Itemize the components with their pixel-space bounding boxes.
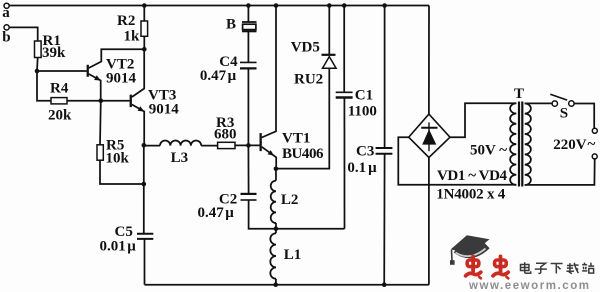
wire mid node to C1 corner (276, 228, 345, 230)
label 220V~ (553, 137, 595, 153)
node R1-R4-base junction (35, 69, 40, 74)
resistor R3 (214, 115, 237, 149)
wire node to VT2 base (37, 70, 87, 72)
svg-text:b: b (2, 30, 10, 46)
svg-text:VD1 ~ VD4: VD1 ~ VD4 (437, 168, 508, 184)
wire R3 to VT1 base (235, 144, 260, 146)
switch S (550, 94, 574, 121)
transistor VT2 (87, 49, 145, 100)
inductor L2 (271, 169, 299, 229)
wire bus corner to bridge (428, 6, 430, 115)
wire C5 to ground bus (144, 239, 146, 285)
label 1N4002 x 4 (436, 187, 506, 203)
wire bridge minus to ground bus (428, 158, 430, 285)
svg-text:0.47μ: 0.47μ (200, 68, 237, 84)
label VD1~VD4 (437, 168, 508, 184)
capacitor C2 (198, 145, 257, 221)
wire terminal to primary bottom (525, 159, 595, 185)
svg-text:1k: 1k (124, 28, 141, 44)
svg-text:R4: R4 (50, 80, 69, 96)
svg-text:10k: 10k (106, 151, 130, 167)
wire C2 to mid node (249, 200, 276, 229)
terminal 220V top (592, 128, 597, 133)
node L2-C2-C1 junction (274, 226, 279, 231)
node R2 bottom junction (142, 3, 147, 51)
svg-text:39k: 39k (42, 45, 66, 61)
svg-text:VD5: VD5 (291, 39, 320, 55)
svg-text:0.01μ: 0.01μ (100, 238, 137, 254)
terminal a (2, 3, 10, 21)
svg-text:680: 680 (214, 127, 237, 143)
transformer T (510, 86, 531, 186)
svg-text:0.1μ: 0.1μ (347, 160, 377, 176)
logo character chong 1 (466, 256, 481, 278)
svg-text:L1: L1 (284, 247, 302, 263)
wire emitter node down (143, 145, 145, 234)
node VT3 emitter junction (142, 143, 147, 148)
node VT2e-R4-VT3b junction (99, 98, 104, 103)
svg-text:9014: 9014 (149, 102, 180, 118)
svg-text:B: B (226, 17, 236, 33)
wire R4 to node B3 (67, 100, 101, 102)
resistor R4 (48, 80, 72, 123)
transistor VT1 (260, 3, 325, 169)
inductor L1 (270, 229, 301, 285)
logo graduation cap (450, 235, 490, 265)
svg-text:C1: C1 (355, 87, 373, 103)
svg-text:50V ~: 50V ~ (470, 143, 507, 159)
node R5 junction (142, 182, 147, 187)
wire R1 to node (36, 58, 39, 72)
wire bottom ground bus (145, 284, 429, 286)
transistor VT3 (130, 49, 180, 145)
node C3 ground junction (382, 282, 387, 287)
svg-text:a: a (2, 5, 10, 21)
varistor RU2 label (294, 72, 323, 88)
terminal 220V bottom (592, 154, 597, 159)
resistor R5 (97, 101, 144, 184)
svg-text:20k: 20k (48, 107, 72, 123)
node VT1 emitter junction (274, 167, 279, 172)
svg-text:C3: C3 (356, 143, 374, 159)
svg-text:~: ~ (588, 137, 596, 153)
inductor L3 (144, 140, 218, 165)
label 50V~ (470, 143, 507, 159)
wire bridge AC left to secondary bottom (398, 137, 516, 185)
svg-text:RU2: RU2 (294, 72, 323, 88)
svg-text:L3: L3 (171, 150, 189, 166)
diode VD5 (291, 3, 336, 68)
node L1 ground junction (273, 282, 278, 287)
svg-text:9014: 9014 (106, 71, 137, 87)
wire C4 to node (247, 68, 249, 145)
svg-text:1100: 1100 (348, 104, 377, 120)
wire node to VT3 base (101, 100, 130, 102)
logo character chong 2 (493, 256, 508, 278)
wire bridge AC right to secondary top (450, 103, 516, 137)
capacitor C1 (336, 3, 377, 229)
resistor R2 (117, 6, 148, 50)
logo text dianzi xiazai zhan (521, 262, 595, 273)
wire node down to R4 (37, 71, 51, 101)
resistor R1 (35, 33, 67, 61)
capacitor C3 (347, 3, 392, 285)
svg-text:R2: R2 (117, 13, 135, 29)
svg-text:S: S (560, 105, 568, 121)
wire VD5 to VT1 emitter (276, 68, 329, 168)
svg-text:L2: L2 (281, 192, 299, 208)
bridge rectifier VD1-VD4 (409, 114, 450, 157)
capacitor C4 (200, 31, 257, 84)
wire top supply bus (9, 5, 429, 7)
capacitor C5 (100, 224, 154, 254)
terminal b (2, 25, 10, 46)
svg-text:BU406: BU406 (282, 146, 324, 162)
wire primary top to switch (525, 102, 552, 104)
wire switch to terminal (574, 104, 594, 129)
crystal B (226, 3, 257, 32)
svg-text:220V: 220V (553, 137, 587, 153)
svg-text:1N4002 x 4: 1N4002 x 4 (436, 187, 506, 203)
svg-text:0.47μ: 0.47μ (198, 205, 235, 221)
svg-text:T: T (514, 86, 524, 102)
logo url www.eeworm.com (468, 280, 590, 292)
svg-text:www.eeworm.com: www.eeworm.com (468, 280, 590, 292)
svg-text:VT1: VT1 (282, 130, 310, 146)
wire b to R1 (9, 27, 38, 41)
node R3-C4 junction (246, 143, 251, 148)
